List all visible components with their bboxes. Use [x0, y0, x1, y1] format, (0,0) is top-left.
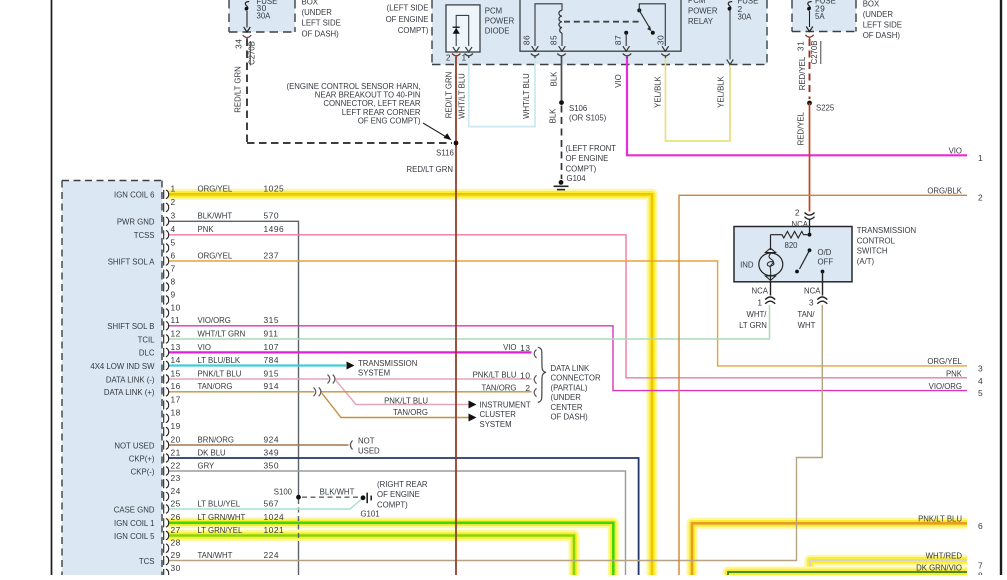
svg-text:19: 19	[171, 421, 181, 431]
svg-text:24: 24	[171, 486, 181, 496]
svg-text:TRANSMISSION: TRANSMISSION	[358, 359, 417, 368]
DLC pin arcs	[534, 350, 536, 358]
svg-text:1: 1	[757, 298, 762, 308]
svg-text:20: 20	[171, 434, 181, 444]
svg-text:86: 86	[522, 35, 532, 45]
svg-text:CKP(+): CKP(+)	[129, 454, 155, 463]
svg-text:(LEFT FRONT: (LEFT FRONT	[566, 144, 617, 153]
diode symbol	[453, 28, 460, 34]
svg-text:30A: 30A	[257, 11, 272, 20]
svg-text:3: 3	[978, 364, 983, 374]
wire pin4 PNK 1496	[168, 235, 967, 378]
svg-text:7: 7	[978, 561, 983, 571]
svg-text:924: 924	[264, 434, 279, 444]
svg-text:(RIGHT REAR: (RIGHT REAR	[377, 480, 428, 489]
switch pin2 NCA connector	[805, 213, 815, 216]
svg-text:RED/LT GRN: RED/LT GRN	[445, 72, 454, 119]
wire pin3 BLK/WHT 570	[168, 221, 299, 497]
svg-text:IGN COIL 1: IGN COIL 1	[114, 519, 154, 528]
svg-text:ORG/YEL: ORG/YEL	[198, 185, 233, 194]
wire pin26 LT GRN/WHT 1024 highlighted	[168, 523, 613, 575]
svg-text:13: 13	[520, 343, 530, 353]
svg-text:SWITCH: SWITCH	[857, 247, 888, 256]
svg-text:TCSS: TCSS	[134, 231, 155, 240]
svg-text:OF DASH): OF DASH)	[863, 31, 901, 40]
svg-text:BOX: BOX	[302, 0, 319, 7]
svg-text:DIODE: DIODE	[485, 26, 510, 35]
svg-text:ORG/YEL: ORG/YEL	[927, 357, 962, 366]
svg-text:34: 34	[234, 39, 244, 49]
svg-text:SYSTEM: SYSTEM	[358, 369, 390, 378]
svg-text:GRY: GRY	[198, 461, 216, 470]
svg-text:LT BLU/YEL: LT BLU/YEL	[198, 499, 241, 508]
svg-text:RED/LT GRN: RED/LT GRN	[407, 165, 454, 174]
svg-text:DATA LINK (-): DATA LINK (-)	[106, 375, 155, 384]
svg-text:OF ENGINE: OF ENGINE	[377, 490, 420, 499]
svg-text:VIO: VIO	[198, 343, 211, 352]
wire pin16 TAN/ORG 914	[168, 391, 315, 393]
inline connector on pin16 wire	[314, 387, 322, 396]
PDC engine-compartment dashed box	[432, 0, 767, 65]
svg-text:3: 3	[171, 211, 176, 221]
switch arm	[808, 248, 812, 252]
note arrow to S116	[423, 123, 449, 139]
svg-text:COMPT): COMPT)	[377, 500, 408, 509]
svg-text:LT GRN/WHT: LT GRN/WHT	[198, 513, 246, 522]
svg-text:107: 107	[264, 342, 279, 352]
svg-text:27: 27	[171, 525, 181, 535]
wire pin21 DK BLU 349	[168, 458, 639, 575]
svg-text:DLC: DLC	[139, 349, 155, 358]
wire pin25 LT BLU/YEL 567 to G101	[168, 498, 363, 509]
wire dashed RED/LT GRN from fuse30	[246, 39, 248, 144]
wire pin12 WHT/LT GRN 911 to switch pin1	[168, 305, 770, 339]
svg-text:C270B: C270B	[248, 41, 257, 65]
svg-text:2: 2	[525, 383, 530, 393]
svg-text:LEFT SIDE: LEFT SIDE	[302, 19, 341, 28]
svg-text:VIO: VIO	[949, 147, 962, 156]
svg-text:1: 1	[978, 153, 983, 163]
svg-text:(LEFT SIDE: (LEFT SIDE	[387, 3, 429, 12]
svg-text:5A: 5A	[815, 12, 825, 21]
fuse F29	[808, 2, 812, 11]
svg-text:NCA: NCA	[752, 286, 769, 295]
svg-text:SYSTEM: SYSTEM	[480, 420, 512, 429]
wire dashed BLK S106 to G104	[561, 106, 563, 180]
relay coil	[559, 10, 562, 33]
wire pin15 PNK/LT BLU 915	[168, 378, 329, 380]
left fuse box (under dash)	[229, 0, 295, 32]
svg-text:COMPT): COMPT)	[398, 26, 429, 35]
svg-text:YEL/BLK: YEL/BLK	[717, 75, 726, 107]
wire RED/YEL S225 to switch pin2	[809, 103, 811, 212]
svg-text:PNK: PNK	[946, 370, 963, 379]
svg-text:CLUSTER: CLUSTER	[480, 410, 517, 419]
svg-text:1496: 1496	[264, 224, 285, 234]
svg-text:5: 5	[978, 388, 983, 398]
svg-text:28: 28	[171, 538, 181, 548]
svg-text:PNK: PNK	[198, 225, 215, 234]
PCM power relay K1	[520, 0, 681, 51]
svg-text:349: 349	[264, 447, 279, 457]
svg-text:G101: G101	[360, 510, 379, 519]
svg-text:VIO/ORG: VIO/ORG	[929, 382, 962, 391]
fuse F30	[245, 2, 249, 11]
svg-text:BLK/WHT: BLK/WHT	[320, 487, 355, 496]
svg-text:10: 10	[520, 370, 530, 380]
svg-text:CASE GND: CASE GND	[114, 505, 155, 514]
svg-text:TAN/WHT: TAN/WHT	[198, 551, 233, 560]
transmission system arrow	[347, 362, 355, 370]
fuse F2	[728, 2, 732, 11]
transmission control switch S1	[734, 227, 852, 282]
svg-text:4: 4	[171, 224, 176, 234]
relay switch contacts	[637, 8, 641, 12]
svg-text:SHIFT SOL A: SHIFT SOL A	[108, 257, 156, 266]
svg-text:5: 5	[171, 237, 176, 247]
svg-text:(UNDER: (UNDER	[302, 8, 333, 17]
svg-text:INSTRUMENT: INSTRUMENT	[480, 401, 531, 410]
wire pin11 VIO/ORG 315	[168, 326, 967, 391]
svg-text:237: 237	[264, 250, 279, 260]
svg-text:29: 29	[171, 550, 181, 560]
PCM power diode U1	[446, 5, 480, 52]
svg-text:RELAY: RELAY	[688, 17, 714, 26]
wire DK GRN/VIO to pin8 right highlighted	[728, 572, 967, 575]
svg-text:PCM: PCM	[688, 0, 705, 5]
not-used bracket pin20	[350, 441, 352, 450]
svg-text:PWR GND: PWR GND	[117, 218, 155, 227]
svg-text:16: 16	[171, 381, 181, 391]
svg-text:ORG/BLK: ORG/BLK	[927, 187, 962, 196]
svg-text:OF ENGINE: OF ENGINE	[566, 154, 609, 163]
svg-text:13: 13	[171, 342, 181, 352]
svg-text:4X4 LOW IND SW: 4X4 LOW IND SW	[90, 362, 155, 371]
wire pin27 LT GRN/YEL 1021 highlighted	[168, 536, 574, 576]
svg-text:CKP(-): CKP(-)	[131, 467, 155, 476]
svg-text:RED/LT GRN: RED/LT GRN	[234, 66, 243, 113]
svg-text:4: 4	[978, 376, 983, 386]
svg-text:1: 1	[171, 184, 176, 194]
svg-text:DK BLU: DK BLU	[198, 448, 227, 457]
svg-text:17: 17	[171, 394, 181, 404]
svg-text:30: 30	[656, 35, 666, 45]
svg-text:567: 567	[264, 498, 279, 508]
svg-text:11: 11	[171, 315, 181, 325]
svg-text:10: 10	[171, 302, 181, 312]
svg-text:TCS: TCS	[139, 557, 155, 566]
svg-text:25: 25	[171, 498, 181, 508]
svg-text:G104: G104	[567, 174, 587, 183]
svg-text:ORG/YEL: ORG/YEL	[198, 251, 233, 260]
svg-text:8: 8	[171, 276, 176, 286]
svg-text:PNK/LT BLU: PNK/LT BLU	[198, 369, 242, 378]
svg-text:12: 12	[171, 328, 181, 338]
svg-text:NCA: NCA	[792, 220, 809, 229]
svg-text:CONTROL: CONTROL	[857, 236, 896, 245]
wire dashed RED/YEL below fuse29	[809, 39, 811, 99]
svg-text:2: 2	[978, 193, 983, 203]
svg-text:TAN/: TAN/	[797, 310, 815, 319]
svg-text:OF DASH): OF DASH)	[302, 29, 340, 38]
svg-text:DK GRN/VIO: DK GRN/VIO	[916, 563, 962, 572]
svg-text:784: 784	[264, 355, 279, 365]
wire pin20 BRN/ORG 924	[168, 444, 349, 446]
svg-text:PCM: PCM	[485, 6, 502, 15]
left edge frame	[51, 0, 53, 575]
wire VIO relay pin87 to right edge	[627, 57, 967, 155]
svg-text:1: 1	[462, 53, 467, 63]
svg-text:OFF: OFF	[818, 258, 834, 267]
svg-text:RED/YEL: RED/YEL	[797, 111, 806, 145]
svg-text:6: 6	[978, 521, 983, 531]
svg-text:31: 31	[795, 41, 805, 51]
splice S100	[296, 495, 301, 500]
ground G101	[361, 495, 366, 500]
splice S225	[807, 101, 812, 106]
wire below S100 dashed then solid	[298, 499, 300, 541]
svg-text:(UNDER: (UNDER	[863, 10, 894, 19]
svg-text:WHT/RED: WHT/RED	[926, 552, 963, 561]
svg-text:LEFT SIDE: LEFT SIDE	[863, 21, 902, 30]
svg-text:USED: USED	[358, 446, 380, 455]
svg-text:22: 22	[171, 460, 181, 470]
right edge frame	[1000, 0, 1002, 575]
svg-text:914: 914	[264, 381, 279, 391]
indicator lamp IND	[759, 253, 783, 276]
instrument cluster arrows	[469, 401, 477, 409]
wire pin1 ORG/YEL 1025 highlighted	[168, 194, 652, 575]
wire fuse2 lead inside PDC	[729, 10, 731, 60]
svg-text:CONNECTOR, LEFT REAR: CONNECTOR, LEFT REAR	[323, 99, 421, 108]
wire pin29 TAN/WHT 224 to switch pin3	[168, 305, 822, 561]
svg-text:O/D: O/D	[818, 248, 832, 257]
svg-text:WHT: WHT	[798, 321, 816, 330]
right fuse box (under dash)	[792, 0, 856, 32]
svg-text:TRANSMISSION: TRANSMISSION	[857, 226, 916, 235]
svg-text:2: 2	[171, 197, 176, 207]
svg-text:VIO/ORG: VIO/ORG	[198, 316, 231, 325]
svg-text:WHT/: WHT/	[747, 310, 768, 319]
svg-text:WHT/LT BLU: WHT/LT BLU	[522, 73, 531, 119]
svg-text:OF DASH): OF DASH)	[551, 413, 589, 422]
svg-text:BLK: BLK	[550, 71, 559, 87]
svg-text:POWER: POWER	[485, 16, 515, 25]
branch pin15 to instrument cluster	[336, 381, 469, 405]
svg-text:RED/YEL: RED/YEL	[798, 56, 807, 90]
svg-text:(UNDER: (UNDER	[551, 393, 582, 402]
svg-text:NEAR BREAKOUT TO 40-PIN: NEAR BREAKOUT TO 40-PIN	[315, 90, 421, 99]
wire pin6 ORG/YEL 237	[168, 261, 967, 366]
PCM connector pins 1-30	[164, 190, 169, 199]
svg-text:(OR S105): (OR S105)	[569, 114, 607, 123]
svg-text:DATA LINK (+): DATA LINK (+)	[104, 388, 155, 397]
svg-text:S225: S225	[816, 103, 835, 112]
svg-text:NCA: NCA	[804, 286, 821, 295]
resistor 820	[771, 231, 810, 238]
svg-text:BLK/WHT: BLK/WHT	[198, 212, 233, 221]
svg-text:1024: 1024	[264, 512, 285, 522]
svg-text:30: 30	[171, 563, 181, 573]
svg-text:LT GRN/YEL: LT GRN/YEL	[198, 526, 243, 535]
inline connector on pin15 wire	[328, 375, 336, 384]
wire S100 dashed BLK/WHT to G101	[302, 496, 358, 498]
svg-text:WHT/LT BLU: WHT/LT BLU	[458, 73, 467, 119]
svg-text:7: 7	[171, 263, 176, 273]
PCM connector box (left)	[62, 181, 162, 578]
svg-text:CENTER: CENTER	[551, 403, 583, 412]
splice S116	[454, 141, 459, 146]
svg-text:570: 570	[264, 211, 279, 221]
svg-text:8: 8	[978, 571, 983, 576]
svg-text:(A/T): (A/T)	[857, 257, 875, 266]
svg-text:87: 87	[613, 35, 623, 45]
svg-text:VIO: VIO	[503, 343, 516, 352]
svg-text:PNK/LT BLU: PNK/LT BLU	[473, 371, 517, 380]
svg-text:915: 915	[264, 368, 279, 378]
wire pin13 VIO 107 to DLC pin13	[168, 351, 532, 353]
svg-text:YEL/BLK: YEL/BLK	[654, 75, 663, 107]
svg-text:TAN/ORG: TAN/ORG	[482, 383, 517, 392]
svg-text:CONNECTOR: CONNECTOR	[551, 374, 601, 383]
DLC brace	[538, 347, 546, 402]
svg-text:14: 14	[171, 355, 181, 365]
svg-text:1021: 1021	[264, 525, 285, 535]
svg-text:S106: S106	[569, 104, 587, 113]
svg-text:WHT/LT GRN: WHT/LT GRN	[198, 329, 246, 338]
svg-text:COMPT): COMPT)	[566, 164, 597, 173]
svg-text:PNK/LT BLU: PNK/LT BLU	[384, 396, 428, 405]
svg-text:TCIL: TCIL	[138, 335, 156, 344]
svg-text:OF ENGINE: OF ENGINE	[386, 15, 429, 24]
svg-text:3: 3	[809, 298, 814, 308]
svg-text:LT GRN: LT GRN	[739, 321, 767, 330]
svg-text:18: 18	[171, 408, 181, 418]
svg-text:C270B: C270B	[810, 41, 819, 65]
svg-text:30A: 30A	[738, 13, 753, 22]
svg-text:VIO: VIO	[614, 74, 623, 87]
wire PNK/LT BLU to pin6 right highlighted	[692, 523, 967, 575]
svg-text:6: 6	[171, 250, 176, 260]
svg-text:350: 350	[264, 460, 279, 470]
svg-text:SHIFT SOL B: SHIFT SOL B	[107, 322, 154, 331]
wire WHT/RED to pin7 right highlighted	[810, 560, 967, 575]
wire WHT/LT BLU diode pin1 to relay pin86	[469, 57, 535, 127]
svg-text:26: 26	[171, 512, 181, 522]
svg-text:POWER: POWER	[688, 7, 718, 16]
svg-text:LEFT REAR CORNER: LEFT REAR CORNER	[342, 108, 421, 117]
svg-text:TAN/ORG: TAN/ORG	[198, 382, 233, 391]
wire pin22 GRY 350	[168, 471, 626, 575]
svg-text:NOT USED: NOT USED	[114, 441, 155, 450]
svg-text:BRN/ORG: BRN/ORG	[198, 435, 234, 444]
wire pin14 LT BLU/BLK 784	[168, 364, 346, 366]
switch pin3 lead	[822, 282, 824, 296]
svg-text:IGN COIL 5: IGN COIL 5	[114, 532, 155, 541]
svg-text:BLK: BLK	[549, 108, 558, 124]
wire YEL/BLK relay pin30 to fuse2	[666, 57, 731, 141]
svg-text:DATA LINK: DATA LINK	[551, 364, 591, 373]
svg-text:NOT: NOT	[358, 437, 375, 446]
svg-text:PNK/LT BLU: PNK/LT BLU	[918, 515, 962, 524]
svg-text:OF ENG COMPT): OF ENG COMPT)	[358, 117, 421, 126]
switch pin1 lead	[770, 282, 772, 296]
wire BLK relay pin85 to S106	[561, 57, 563, 101]
svg-text:15: 15	[171, 368, 181, 378]
svg-text:9: 9	[171, 289, 176, 299]
svg-text:LT BLU/BLK: LT BLU/BLK	[198, 356, 241, 365]
svg-text:TAN/ORG: TAN/ORG	[393, 408, 428, 417]
wire RED/LT GRN vertical from diode pin2	[455, 57, 457, 575]
relay dashed link	[564, 21, 641, 23]
svg-text:IGN COIL 6: IGN COIL 6	[114, 191, 154, 200]
svg-text:2: 2	[795, 208, 800, 218]
svg-text:S116: S116	[436, 149, 454, 158]
svg-text:21: 21	[171, 447, 181, 457]
branch pin16 to instrument cluster	[322, 393, 469, 417]
svg-text:85: 85	[549, 35, 559, 45]
svg-text:2: 2	[446, 53, 451, 63]
svg-text:S100: S100	[274, 487, 293, 496]
svg-text:23: 23	[171, 473, 181, 483]
svg-text:1025: 1025	[264, 184, 285, 194]
svg-text:IND: IND	[740, 260, 754, 269]
ground G104	[559, 180, 564, 185]
svg-text:BOX: BOX	[863, 0, 880, 8]
svg-text:315: 315	[264, 315, 279, 325]
splice S106	[559, 100, 564, 105]
svg-text:820: 820	[784, 241, 798, 250]
svg-text:911: 911	[264, 328, 279, 338]
svg-text:(PARTIAL): (PARTIAL)	[551, 383, 588, 392]
wire ORG/BLK to right edge pin2 row	[679, 195, 967, 575]
svg-text:224: 224	[264, 550, 279, 560]
